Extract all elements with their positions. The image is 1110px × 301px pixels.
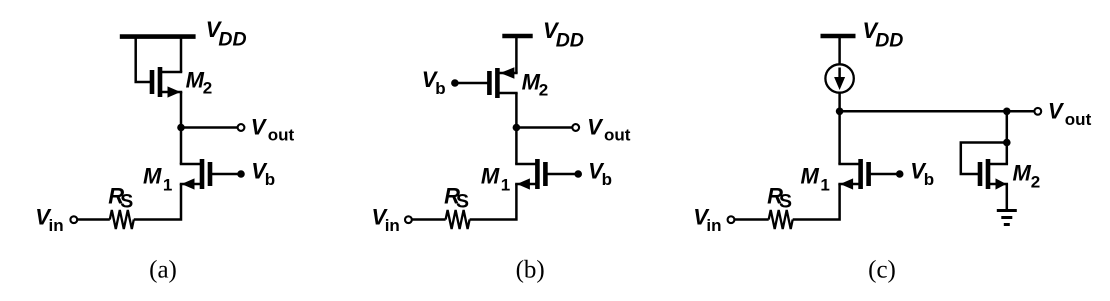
label Vin (a)	[35, 204, 63, 235]
transistor M1 NMOS (c)	[838, 159, 868, 190]
svg-text:1: 1	[163, 175, 172, 194]
label M1 (b)	[481, 163, 510, 194]
wire: output node to M1 drain (c)	[838, 111, 841, 164]
wire: M1 gate to Vb bias (b)	[545, 173, 578, 176]
wire: M2 source down to ground (c)	[1006, 184, 1009, 209]
wire: M2 gate loop (c)	[961, 143, 1007, 175]
terminal: Vout open circle (a)	[238, 124, 245, 131]
wire: M2 source to output node (a)	[180, 92, 183, 128]
svg-text:M: M	[1013, 161, 1032, 186]
label Vin (c)	[693, 204, 721, 235]
resistor RS (b)	[446, 210, 470, 229]
wire: Vin terminal to RS (c)	[735, 218, 769, 221]
terminal: Vin open circle (b)	[405, 216, 412, 223]
svg-text:S: S	[120, 190, 133, 212]
svg-text:in: in	[385, 216, 400, 235]
label VDD (b)	[543, 18, 584, 52]
svg-text:DD: DD	[556, 30, 584, 52]
svg-text:2: 2	[1031, 173, 1040, 192]
terminal: Vin open circle (c)	[728, 216, 735, 223]
wire: current source to output node (c)	[838, 93, 841, 112]
label RS (a)	[108, 184, 133, 213]
wire: Vin terminal to RS (a)	[77, 218, 109, 221]
svg-text:in: in	[49, 216, 64, 235]
svg-text:V: V	[587, 114, 604, 139]
terminal: Vin open circle (a)	[70, 216, 77, 223]
svg-text:1: 1	[501, 175, 510, 194]
svg-text:DD: DD	[218, 29, 246, 51]
svg-text:V: V	[1048, 99, 1065, 124]
wire: RS to M1 source (a)	[134, 184, 181, 220]
label M2 (c)	[1013, 161, 1041, 192]
svg-text:2: 2	[203, 79, 212, 98]
label M2 (a)	[186, 68, 213, 98]
wire: M2 drain to VDD rail (a)	[180, 37, 183, 72]
wire: output node to Vout terminal (b)	[516, 126, 572, 129]
wire: M2 gate loop to VDD rail (a)	[136, 37, 152, 82]
svg-text:M: M	[143, 163, 162, 188]
wire: output node to Vout terminal (a)	[181, 126, 238, 129]
svg-text:(c): (c)	[868, 257, 896, 284]
label Vin (b)	[372, 204, 400, 235]
node: Vb bias dot (a)	[237, 170, 245, 178]
svg-text:b: b	[924, 170, 934, 189]
wire: output node to M1 drain (b)	[515, 128, 518, 165]
wire: output node to M1 drain (a)	[180, 128, 183, 165]
label VDD (c)	[863, 18, 904, 52]
node: M2 drain junction dot on output wire (c)	[1003, 108, 1011, 116]
wire: Vin terminal to RS (b)	[412, 218, 446, 221]
svg-text:V: V	[251, 114, 268, 139]
wire: VDD rail to current source (c)	[838, 36, 841, 64]
svg-text:S: S	[779, 190, 792, 212]
svg-text:(a): (a)	[149, 257, 177, 284]
node: output node dot (c)	[836, 108, 844, 116]
label RS (c)	[767, 184, 792, 213]
transistor M2 diode-connected NMOS (c)	[980, 159, 1008, 190]
svg-text:1: 1	[820, 175, 829, 194]
node: Vb bias dot (b)	[451, 79, 459, 87]
svg-text:out: out	[1065, 110, 1092, 129]
label Vb (b)	[422, 67, 446, 98]
label M1 (a)	[143, 163, 172, 194]
resistor RS (c)	[769, 210, 793, 229]
current source I1 (c)	[825, 64, 853, 92]
wire: M1 gate to Vb bias (c)	[869, 173, 900, 176]
svg-text:S: S	[456, 190, 469, 212]
svg-text:(b): (b)	[516, 257, 545, 284]
VDD supply rail (b)	[502, 34, 532, 39]
wire: M2 gate to Vb bias (b)	[455, 82, 490, 85]
transistor M1 NMOS (b)	[515, 159, 545, 190]
label VDD (a)	[206, 17, 247, 51]
label Vb (c)	[910, 158, 934, 189]
node: M2 gate loop junction dot (c)	[1003, 139, 1011, 147]
svg-text:DD: DD	[875, 30, 903, 52]
ground symbol (c)	[997, 211, 1017, 225]
node: Vb bias dot (c)	[896, 170, 904, 178]
node: output node dot (a)	[177, 124, 185, 132]
label M1-Vb (b)	[588, 158, 612, 189]
wire: RS to M1 source (c)	[793, 184, 840, 220]
node: output node dot (b)	[513, 124, 521, 132]
transistor M2 diode-connected NMOS (a)	[152, 67, 182, 98]
transistor M2 PMOS (b)	[489, 67, 517, 98]
label Vout (b)	[587, 114, 631, 144]
wire: output wire down to M2 drain (c)	[1006, 111, 1009, 164]
wire: M1 gate to Vb bias (a)	[210, 173, 241, 176]
svg-text:b: b	[265, 170, 275, 189]
wire: output node to Vout terminal (c)	[840, 110, 1035, 113]
transistor M1 NMOS (a)	[180, 159, 210, 190]
wire: VDD rail to M2 source (b)	[515, 36, 518, 73]
svg-text:b: b	[602, 170, 612, 189]
label M1 (c)	[801, 163, 830, 194]
svg-text:b: b	[435, 79, 445, 98]
label M2 (b)	[522, 70, 549, 100]
svg-text:M: M	[801, 163, 820, 188]
VDD supply rail (a)	[120, 34, 196, 39]
svg-text:2: 2	[539, 80, 548, 99]
label Vout (a)	[251, 114, 295, 144]
wire: M2 drain to output node (b)	[515, 93, 518, 128]
resistor RS (a)	[110, 210, 134, 229]
label Vout (c)	[1048, 99, 1092, 129]
wire: RS to M1 source (b)	[470, 184, 517, 220]
VDD supply rail (c)	[821, 34, 856, 39]
label RS (b)	[444, 184, 469, 213]
svg-text:in: in	[706, 216, 721, 235]
svg-text:out: out	[268, 126, 295, 145]
terminal: Vout open circle (c)	[1034, 108, 1041, 115]
svg-text:out: out	[604, 126, 631, 145]
node: M1 Vb bias dot (b)	[574, 170, 582, 178]
terminal: Vout open circle (b)	[572, 124, 579, 131]
label Vb (a)	[251, 158, 275, 189]
svg-text:M: M	[481, 163, 500, 188]
